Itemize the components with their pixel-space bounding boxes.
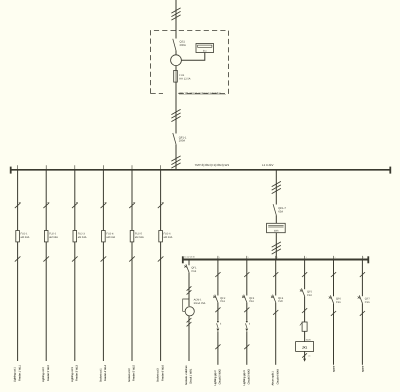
svg-text:L1 L2 L3 N: L1 L2 L3 N (184, 256, 195, 259)
junction box JX1 (296, 342, 314, 352)
breaker QF5 (302, 288, 305, 296)
wire feeder WL6 upper (160, 170, 162, 231)
tap ticks above sub busbar (217, 256, 219, 259)
break mark middle feeder 2 (215, 307, 220, 312)
svg-text:1: 1 (248, 256, 249, 259)
break mark sub feeder 2 (215, 272, 220, 277)
conductor break marks (3 slashes) below enclosure (171, 109, 180, 114)
break mark on feeder WL5 (129, 203, 135, 208)
dashed enclosure box (substation cubicle) (151, 31, 229, 94)
sub busbar left end cap (182, 256, 184, 263)
wire feeder WL2 upper (45, 170, 47, 231)
wire feeder WL3 upper (74, 170, 76, 231)
svg-text:aM 63A: aM 63A (106, 236, 115, 239)
svg-text:Circuit 2 WX2: Circuit 2 WX2 (219, 369, 222, 385)
wire lower feeder 4 (275, 302, 277, 364)
break marks (3 slashes) above sub busbar (272, 242, 281, 247)
lamp switch symbol feeder 3 (246, 321, 248, 323)
feeder WL5 tap tick on busbar (131, 165, 133, 169)
wire breaker to kWh meter (275, 215, 277, 223)
svg-text:200A: 200A (179, 140, 185, 143)
wire lower feeder 3 (246, 331, 248, 365)
break mark lower feeder 3 (244, 344, 249, 349)
feeder WL3 tap tick on busbar (74, 165, 76, 169)
wire fuse to junction box (304, 331, 306, 341)
svg-text:1: 1 (335, 256, 336, 259)
wire CT to energy meter (181, 53, 204, 61)
busbar left end cap (10, 167, 12, 174)
svg-text:1: 1 (277, 256, 278, 259)
break mark lower feeder 7 (360, 311, 365, 316)
svg-text:Feeder 1 WL1: Feeder 1 WL1 (18, 365, 21, 381)
breaker QF6 (330, 295, 333, 303)
fuse FU2-5 (130, 231, 134, 242)
conductor break marks (3 slashes) on incoming line (171, 8, 180, 13)
wire feeder WL4 upper (102, 170, 104, 231)
wire feeder WL2 lower (45, 242, 47, 361)
feeder WL6 tap tick on busbar (160, 165, 162, 169)
svg-text:1: 1 (306, 256, 307, 259)
main busbar W1 (11, 169, 391, 171)
current transformer circle (171, 55, 182, 66)
wire feeder WL1 upper (17, 170, 19, 231)
wire meter to sub busbar (275, 233, 277, 260)
svg-text:Lighting cct 2: Lighting cct 2 (42, 367, 45, 382)
breaker QF4 (273, 295, 276, 303)
svg-text:kWh: kWh (274, 230, 279, 233)
svg-text:C16: C16 (249, 300, 254, 303)
kWh meter box on drop (267, 223, 286, 232)
svg-text:C20: C20 (278, 300, 283, 303)
svg-text:1: 1 (363, 256, 364, 259)
wire circle to fuse FU1 (175, 66, 177, 71)
wire to fuse feeder 5 (304, 296, 306, 322)
sub-distribution busbar W2 (183, 259, 368, 261)
wire lower feeder 2 (217, 331, 219, 365)
svg-text:Feeder 2 WL2: Feeder 2 WL2 (47, 365, 50, 381)
break mark sub feeder 3 (244, 272, 249, 277)
break marks sub feeder 1 (187, 286, 192, 290)
svg-text:200A: 200A (180, 44, 186, 47)
svg-text:C32: C32 (307, 294, 312, 297)
break mark lower on feeder WL1 (15, 256, 21, 261)
svg-text:Lighting grp 2: Lighting grp 2 (214, 370, 217, 386)
breaker QF3 (244, 295, 247, 303)
wire lower feeder 6 (333, 303, 335, 365)
feeder WL2 tap tick on busbar (45, 165, 47, 169)
wire feeder WL6 lower (160, 242, 162, 361)
breaker QF1-7 on drop (273, 204, 276, 215)
fuse FU2-2 (44, 231, 48, 242)
fuse sub feeder 5 (302, 322, 307, 331)
break mark on feeder WL1 (15, 203, 21, 208)
svg-text:HH 12.5A: HH 12.5A (179, 78, 191, 81)
disconnector QS1 (173, 39, 176, 51)
wire to lamp switch 3 (246, 302, 248, 320)
break mark middle feeder 3 (244, 307, 249, 312)
svg-text:FU2-6: FU2-6 (164, 233, 172, 236)
energy meter box Wh (196, 44, 214, 53)
svg-text:TMY-3(40x4)+1(40x4)-W1: TMY-3(40x4)+1(40x4)-W1 (195, 163, 230, 167)
lamp switch symbol feeder 2 (217, 321, 219, 323)
break mark lower on feeder WL3 (72, 256, 78, 261)
break marks below RCD (187, 318, 192, 322)
svg-text:Socket cct 2: Socket cct 2 (128, 368, 131, 382)
svg-text:1: 1 (219, 256, 220, 259)
break mark sub feeder 5 (302, 272, 307, 277)
break mark lower feeder 2 (215, 344, 220, 349)
svg-text:Feeder 5 WL5: Feeder 5 WL5 (133, 365, 136, 381)
feeder WL1 tap tick on busbar (17, 165, 19, 169)
svg-text:aM 63A: aM 63A (78, 236, 87, 239)
break mark lower on feeder WL4 (101, 256, 107, 261)
break mark sub feeder 7 (360, 272, 365, 277)
wire feeder WL5 upper (131, 170, 133, 231)
svg-text:Socket cct 1: Socket cct 1 (99, 368, 102, 382)
svg-text:Aircon split 1: Aircon split 1 (272, 371, 275, 386)
svg-text:Feeder 3 WL3: Feeder 3 WL3 (76, 365, 79, 381)
svg-text:Circuit 1 WX1: Circuit 1 WX1 (190, 368, 193, 384)
wire incoming supply line top (175, 0, 177, 39)
sub busbar right end cap (367, 256, 369, 263)
svg-text:JX1: JX1 (302, 346, 308, 350)
sub feeder 1 wire from busbar (188, 259, 190, 265)
break mark lower feeder 4 (273, 310, 278, 315)
svg-text:aM 63A: aM 63A (21, 236, 30, 239)
break mark lower feeder 6 (331, 311, 336, 316)
svg-text:C16: C16 (365, 301, 370, 304)
break mark sub feeder 4 (273, 272, 278, 277)
wire breaker to RCD loop (188, 272, 190, 306)
wire to lamp switch 2 (217, 302, 219, 320)
break mark on feeder WL3 (72, 203, 78, 208)
busbar right end cap (389, 167, 391, 174)
sub feeder 2 wire from busbar (217, 259, 219, 295)
breaker QF2 (215, 295, 218, 303)
svg-text:aM 63A: aM 63A (49, 236, 58, 239)
breaker QF7 (359, 295, 362, 303)
svg-text:Feeder 4 WL4: Feeder 4 WL4 (104, 365, 107, 381)
svg-text:Lighting cct 3: Lighting cct 3 (71, 367, 74, 382)
sub feeder 3 wire from busbar (246, 259, 248, 295)
fuse FU2-1 (16, 231, 20, 242)
break mark on feeder WL6 (158, 203, 164, 208)
wire lower feeder 7 (361, 303, 363, 365)
sub feeder 6 wire from busbar (333, 259, 335, 296)
svg-text:aM 63A: aM 63A (164, 236, 173, 239)
svg-text:spare: spare (333, 365, 336, 372)
conductor break marks (3 slashes) above busbar (171, 156, 180, 161)
svg-text:C16: C16 (220, 300, 225, 303)
break mark feeder 5 (302, 308, 307, 313)
svg-text:Feeder 6 WL6: Feeder 6 WL6 (161, 365, 164, 381)
wire feeder WL5 lower (131, 242, 133, 361)
svg-text:FU2-3: FU2-3 (78, 233, 86, 236)
fuse FU2-4 (102, 231, 106, 242)
svg-text:4x25: 4x25 (306, 339, 312, 342)
break mark lower on feeder WL5 (129, 256, 135, 261)
RCD measuring circle (185, 307, 194, 316)
feeder WL4 tap tick on busbar (102, 165, 104, 169)
svg-text:spare: spare (361, 365, 364, 372)
svg-text:Lighting grp 3: Lighting grp 3 (243, 370, 246, 386)
svg-text:C16: C16 (336, 301, 341, 304)
fuse FU1 (174, 70, 178, 82)
break mark sub feeder 6 (331, 272, 336, 277)
fuse FU2-3 (73, 231, 77, 242)
svg-text:10kV JP cabinet combined subst: 10kV JP cabinet combined substation (179, 92, 222, 95)
svg-text:C63: C63 (191, 270, 196, 273)
break mark lower on feeder WL6 (158, 256, 164, 261)
arrow to load (303, 359, 306, 362)
svg-text:Socket cct 3: Socket cct 3 (157, 368, 160, 382)
break mark on feeder WL2 (43, 203, 49, 208)
svg-text:63A: 63A (278, 210, 283, 213)
svg-text:aM 63A: aM 63A (135, 236, 144, 239)
RCD bypass loop (183, 299, 189, 311)
wire QS1 to CT circle (175, 51, 177, 55)
svg-text:Circuit 4 WX4: Circuit 4 WX4 (276, 369, 279, 385)
wire feeder WL4 lower (102, 242, 104, 361)
svg-text:FU2-2: FU2-2 (49, 233, 57, 236)
svg-text:FU2-1: FU2-1 (21, 233, 29, 236)
wire breaker to main busbar (175, 144, 177, 170)
sub feeder 5 wire from busbar (304, 259, 306, 289)
svg-text:FU2-4: FU2-4 (106, 233, 114, 236)
break mark lower on feeder WL2 (43, 256, 49, 261)
svg-text:L1 0.4kV: L1 0.4kV (262, 163, 273, 167)
sub feeder 4 wire from busbar (275, 259, 277, 295)
circuit breaker QF1 main (173, 133, 176, 144)
svg-text:Lighting cct 1: Lighting cct 1 (14, 367, 17, 382)
break mark on feeder WL4 (101, 203, 107, 208)
breaker QF1 sub feeder 1 (186, 264, 189, 272)
break marks (3 slashes) on drop (272, 181, 281, 186)
svg-text:Sockets + kitchen: Sockets + kitchen (185, 365, 188, 385)
svg-text:30mA 25A: 30mA 25A (194, 302, 206, 305)
wire below JX1 with arrow (304, 351, 306, 359)
wire drop to sub-distribution busbar (275, 170, 277, 205)
wire below RCD (188, 316, 190, 361)
wire feeder WL1 lower (17, 242, 19, 361)
sub feeder 7 wire from busbar (361, 259, 363, 296)
svg-text:Circuit 3 WX3: Circuit 3 WX3 (248, 369, 251, 385)
svg-text:FU2-5: FU2-5 (135, 233, 143, 236)
fuse FU2-6 (159, 231, 163, 242)
wire fuse to enclosure bottom (175, 82, 177, 133)
wire feeder WL3 lower (74, 242, 76, 361)
